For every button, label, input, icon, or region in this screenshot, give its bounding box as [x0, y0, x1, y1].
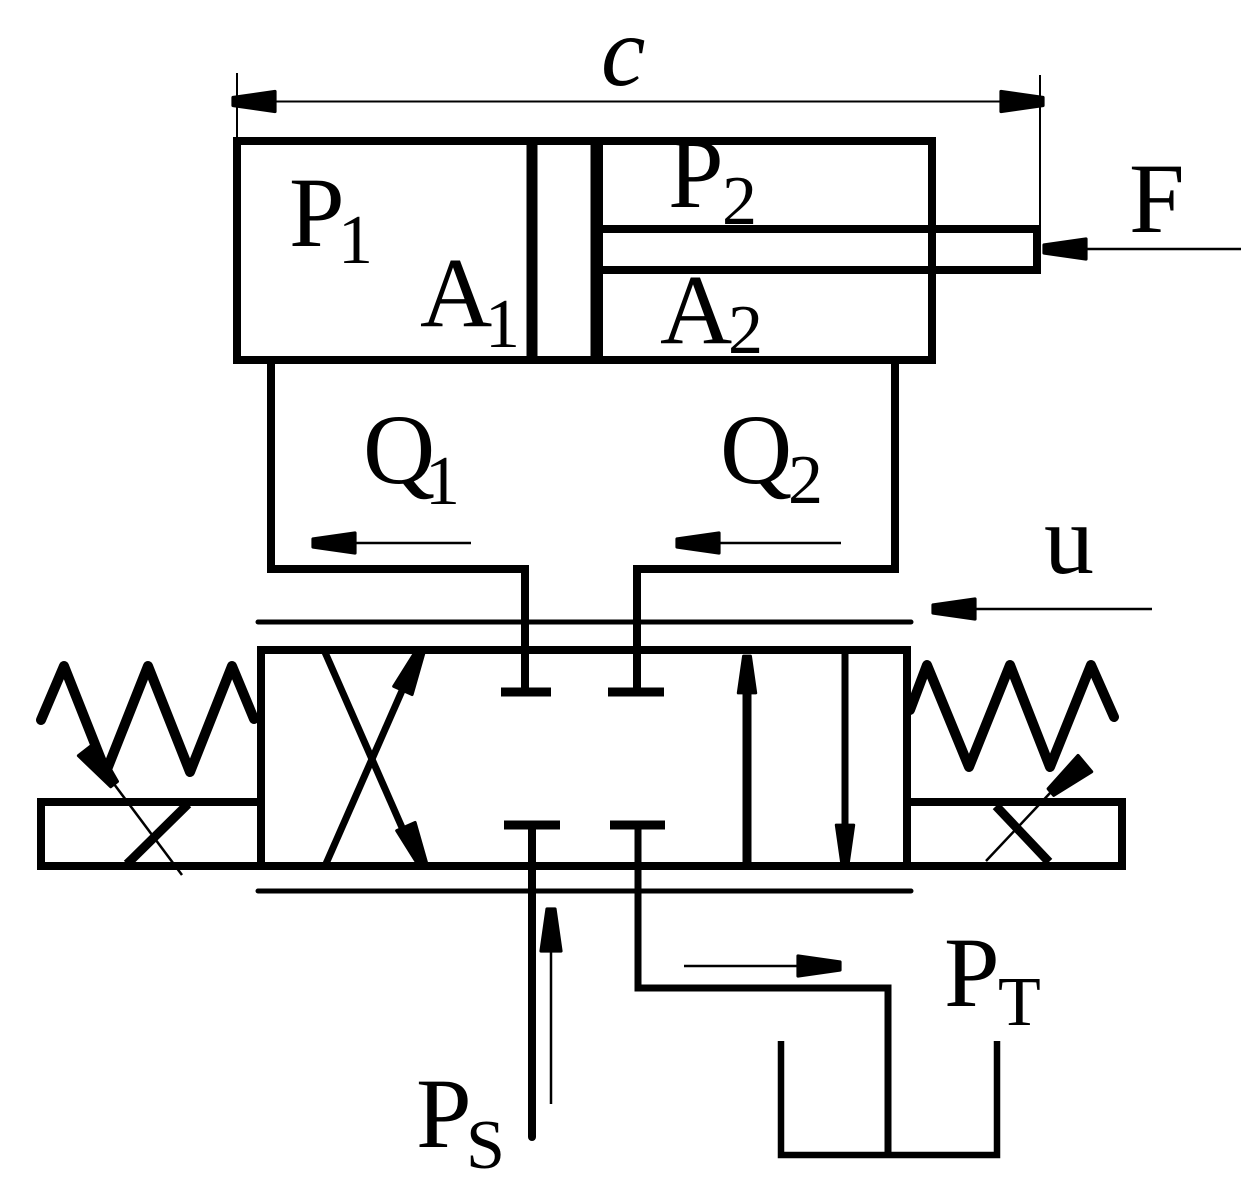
spring left adjust arrow [79, 743, 123, 791]
svg-text:c: c [601, 0, 645, 107]
extension line left [236, 73, 238, 137]
blocked port PT stub bar [610, 821, 665, 830]
flow arrow Q2 [714, 542, 841, 545]
pipe PS [528, 825, 536, 1137]
supply arrow PS [550, 950, 553, 1104]
svg-text:2: 2 [722, 163, 757, 240]
dimension arrowhead right [1001, 92, 1043, 112]
svg-text:1: 1 [485, 286, 520, 363]
pipe Q2 (cylinder right port to valve port B) [637, 360, 895, 688]
tank symbol [781, 1041, 997, 1155]
svg-text:A: A [660, 254, 732, 365]
dimension arrowhead left [233, 92, 275, 112]
svg-text:P: P [289, 157, 345, 268]
valve body (4/3 directional valve) [261, 650, 907, 866]
svg-text:1: 1 [425, 443, 460, 520]
svg-text:Q: Q [720, 394, 792, 505]
tank return arrow PT [684, 965, 800, 968]
flow arrow Q1 [350, 542, 471, 545]
spool indicator line bottom [258, 889, 911, 894]
valve crossed arrow down-right [324, 650, 411, 848]
piston right face [591, 145, 602, 356]
svg-text:P: P [668, 118, 724, 229]
solenoid slash right [996, 806, 1049, 862]
solenoid slash left [127, 804, 188, 864]
spring right [910, 665, 1114, 767]
piston left face [527, 145, 538, 356]
svg-text:S: S [466, 1107, 505, 1184]
svg-text:P: P [944, 917, 1000, 1028]
svg-text:1: 1 [338, 202, 373, 279]
dimension line c [237, 101, 1040, 103]
extension line right [1039, 75, 1041, 227]
svg-text:2: 2 [788, 442, 823, 519]
svg-text:T: T [998, 964, 1041, 1041]
valve straight arrow up [743, 660, 752, 865]
solenoid box right [907, 802, 1122, 866]
svg-text:A: A [420, 237, 492, 348]
blocked port PS stub bar [504, 821, 560, 830]
svg-text:2: 2 [728, 292, 763, 369]
blocked port Q2 stub [634, 654, 641, 688]
svg-text:P: P [416, 1058, 472, 1169]
blocked port Q1 stub [522, 654, 529, 688]
cylinder body [237, 141, 932, 360]
spool displacement arrow u [971, 608, 1152, 611]
solenoid box left [41, 802, 261, 866]
piston rod [601, 229, 1037, 270]
spring left [41, 666, 254, 772]
valve crossed arrow up-right [325, 668, 412, 866]
spring right adjust arrow [1044, 756, 1091, 800]
spool indicator line top [258, 620, 911, 625]
force arrow F [1082, 248, 1241, 251]
pipe Q1 (cylinder left port to valve port A) [271, 360, 525, 688]
valve straight arrow down [842, 654, 849, 856]
pipe PT [638, 825, 888, 1157]
piston rod seal line [601, 145, 603, 356]
svg-text:u: u [1044, 484, 1094, 595]
svg-text:F: F [1129, 143, 1185, 254]
